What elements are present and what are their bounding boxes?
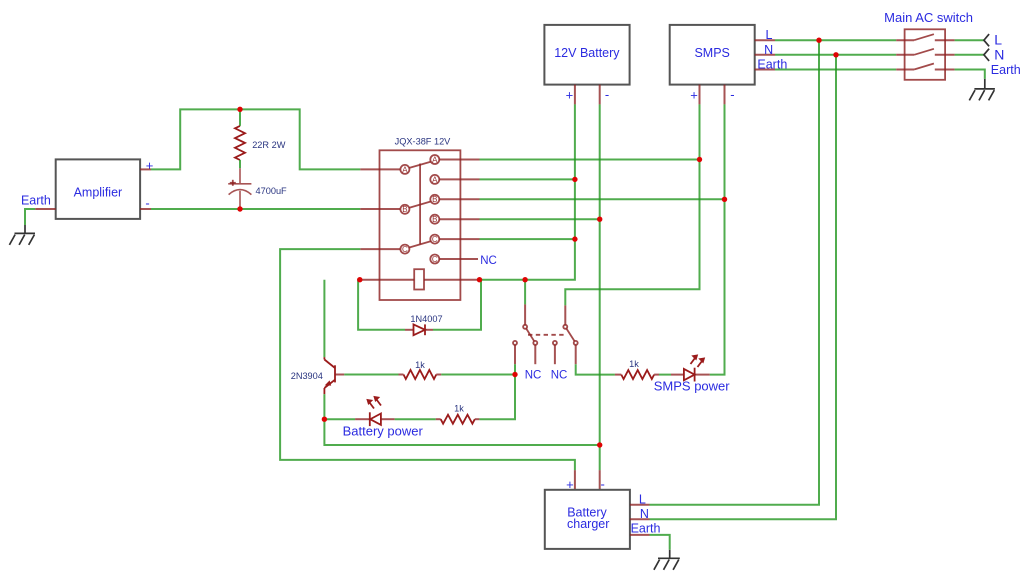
AC switch L pin stub right [935, 39, 955, 41]
svg-text:1k: 1k [629, 359, 639, 369]
AC switch Earth pin stub left [896, 69, 914, 71]
wire emitter to battery power LED [324, 418, 355, 420]
resistor 1k (SMPS power) [615, 359, 659, 379]
svg-text:Amplifier: Amplifier [74, 186, 123, 200]
battery charger L pin stub [630, 504, 650, 506]
svg-text:+: + [690, 88, 698, 103]
relay contact C1 pin stub [439, 238, 479, 240]
svg-text:L: L [994, 32, 1002, 48]
relay pole A circle [400, 165, 409, 174]
wire amplifier - to relay pole B [151, 208, 360, 210]
AC switch Earth blade [914, 64, 934, 70]
12V battery + pin stub [574, 85, 576, 105]
svg-text:12V Battery: 12V Battery [554, 46, 620, 60]
12V battery box [544, 25, 629, 85]
resistor 1k (battery power) [436, 404, 480, 424]
svg-text:C: C [402, 245, 408, 254]
junction A1/SMPS+ [697, 157, 702, 162]
svg-text:C: C [432, 235, 438, 244]
wire SMPS + down to changeover switch pole [565, 104, 699, 305]
AC switch Earth pin stub right [935, 69, 955, 71]
wire AC switch Earth to ground [955, 70, 985, 79]
relay contact B2 pin stub [439, 218, 479, 220]
svg-text:JQX-38F 12V: JQX-38F 12V [395, 136, 452, 146]
svg-text:L: L [766, 28, 773, 42]
12V battery - pin stub [599, 85, 601, 105]
resistor 22R 2W [235, 109, 286, 160]
relay contact C2 circle [430, 255, 439, 264]
svg-text:N: N [994, 46, 1004, 62]
svg-text:B: B [432, 195, 437, 204]
AC switch L blade [914, 34, 934, 40]
transistor 2N3904 [291, 280, 345, 420]
svg-text:A: A [432, 175, 438, 184]
junction coil row / switch pole [522, 277, 527, 282]
battery charger - pin stub [599, 470, 601, 490]
relay arm C [409, 241, 430, 247]
svg-text:+: + [146, 158, 154, 173]
svg-text:C: C [432, 255, 438, 264]
wire 1k battery power up to switch contact [479, 375, 515, 420]
relay JQX-38F 12V [380, 136, 461, 300]
svg-text:NC: NC [551, 369, 568, 381]
AC switch N pin stub right [935, 54, 955, 56]
relay coil left pin [360, 279, 414, 281]
changeover switch (right half) [553, 305, 578, 364]
LED SMPS power [654, 356, 731, 394]
SMPS N pin stub [755, 54, 775, 56]
wire 1k to SMPS power LED [659, 374, 671, 376]
relay contact A1 pin stub [439, 159, 479, 161]
junction top of R1 [237, 107, 242, 112]
relay contact A2 circle [430, 175, 439, 184]
resistor 1k (base) [399, 360, 442, 379]
amplifier + pin stub [140, 168, 151, 170]
junction base wire / switch contact [512, 372, 517, 377]
LED battery power [343, 397, 424, 438]
junction coil row / diode [477, 277, 482, 282]
junction B2/battery- [597, 217, 602, 222]
SMPS - pin stub [724, 85, 726, 105]
wire LED to 1k (battery power) [395, 418, 436, 420]
relay pole A pin stub [360, 168, 400, 170]
junction C1/battery+ [572, 236, 577, 241]
AC switch N blade [914, 49, 934, 55]
svg-text:-: - [730, 87, 734, 102]
wire emitter down to battery - rail [324, 419, 599, 445]
wire L rail down to battery charger L [650, 40, 820, 505]
junction emitter / battery - rail [597, 442, 602, 447]
battery charger box [545, 490, 630, 549]
svg-text:Earth: Earth [631, 521, 661, 535]
SMPS L pin stub [755, 39, 775, 41]
svg-text:+: + [566, 88, 574, 103]
svg-text:22R 2W: 22R 2W [252, 140, 286, 150]
amplifier box [56, 159, 140, 219]
svg-text:SMPS: SMPS [694, 46, 729, 60]
relay contact B1 circle [430, 195, 439, 204]
svg-text:Main AC switch: Main AC switch [884, 10, 973, 25]
wire SMPS L to AC switch [775, 39, 896, 41]
svg-text:NC: NC [525, 369, 542, 381]
svg-text:Earth: Earth [991, 63, 1021, 77]
junction N rail [833, 52, 838, 57]
AC switch N pin stub left [896, 54, 914, 56]
mains connector chevron N [984, 49, 989, 61]
wire AC switch L to mains connector [955, 39, 984, 41]
svg-text:1k: 1k [454, 404, 464, 414]
SMPS Earth pin stub [755, 69, 775, 71]
junction B1/SMPS- [722, 197, 727, 202]
relay contact A1 circle [430, 155, 439, 164]
wire battery + rail down to relay coil row [480, 104, 575, 279]
svg-text:B: B [432, 215, 437, 224]
relay coil [414, 269, 424, 289]
wire relay contact A1 to SMPS + [480, 159, 700, 161]
svg-text:A: A [432, 155, 438, 164]
AC switch L pin stub left [896, 39, 914, 41]
changeover switch gang dashes [528, 334, 565, 336]
relay contact B2 circle [430, 215, 439, 224]
mains connector chevron L [984, 34, 989, 46]
svg-text:NC: NC [480, 255, 497, 267]
wire charger earth to ground [650, 535, 670, 550]
svg-text:B: B [402, 205, 407, 214]
wire SMPS N to AC switch [775, 54, 896, 56]
relay pole B pin stub [360, 208, 400, 210]
relay armature linkage [419, 164, 421, 245]
relay arm B [409, 202, 430, 208]
svg-text:N: N [640, 507, 649, 521]
svg-text:-: - [601, 476, 605, 491]
wire SMPS Earth to AC switch [775, 69, 896, 71]
battery charger + pin stub [574, 470, 576, 490]
svg-text:1N4007: 1N4007 [410, 314, 442, 324]
ground (mains earth) [969, 79, 995, 101]
amplifier - pin stub [140, 208, 151, 210]
wire amplifier earth to ground [25, 209, 35, 225]
wire transistor emitter row [322, 417, 327, 422]
SMPS + pin stub [699, 85, 701, 105]
svg-text:1k: 1k [415, 360, 425, 370]
svg-text:charger: charger [567, 517, 609, 531]
relay pole B circle [400, 205, 409, 214]
wire transistor base to 1k resistor [344, 374, 398, 376]
relay pole C pin stub [360, 248, 400, 250]
svg-text:-: - [605, 87, 609, 102]
battery charger N pin stub [630, 518, 650, 520]
wire amplifier + to relay pole A (over resistor) [151, 109, 360, 169]
amplifier earth pin stub [35, 208, 56, 210]
junction bottom of C1 [237, 206, 242, 211]
svg-text:Battery power: Battery power [343, 423, 424, 438]
battery charger Earth pin stub [630, 534, 650, 536]
junction A2/battery+ [572, 177, 577, 182]
changeover switch (left half) [513, 280, 537, 375]
capacitor 4700uF [228, 160, 287, 209]
wire battery - rail down to charger - [599, 104, 601, 470]
svg-text:L: L [639, 493, 646, 507]
wire relay contact B1 to SMPS - [480, 198, 725, 200]
relay arm A [409, 162, 430, 168]
wire switch right contact to SMPS power row [576, 364, 615, 374]
wire N rail down to battery charger N [650, 55, 837, 519]
svg-text:N: N [764, 43, 773, 57]
relay contact C2 pin stub [439, 258, 478, 260]
wire base resistor to switch contact [441, 374, 515, 376]
relay pole C circle [400, 245, 409, 254]
wire relay contact C1 to coil node [480, 238, 575, 240]
wire relay pole C to battery charger + [280, 249, 575, 470]
wire AC switch N to mains connector [955, 54, 984, 56]
relay contact B1 pin stub [439, 198, 479, 200]
wire relay contact A2 to battery + [480, 178, 575, 180]
relay contact C1 circle [430, 235, 439, 244]
Main AC switch box [905, 29, 946, 80]
diode 1N4007 [358, 280, 481, 336]
SMPS box [670, 25, 755, 85]
ground (amplifier) [9, 225, 35, 245]
svg-text:Earth: Earth [21, 194, 51, 208]
junction coil left / transistor collector [357, 277, 362, 282]
svg-text:+: + [566, 477, 574, 492]
relay coil right pin [424, 279, 480, 281]
ground (charger) [654, 550, 680, 570]
wire relay contact B2 to battery - [480, 218, 600, 220]
svg-text:A: A [402, 165, 408, 174]
wire SMPS - down to SMPS power LED [710, 104, 725, 374]
svg-text:2N3904: 2N3904 [291, 371, 323, 381]
svg-text:4700uF: 4700uF [256, 186, 288, 196]
svg-text:SMPS power: SMPS power [654, 379, 731, 394]
relay contact A2 pin stub [439, 178, 479, 180]
junction L rail [816, 38, 821, 43]
